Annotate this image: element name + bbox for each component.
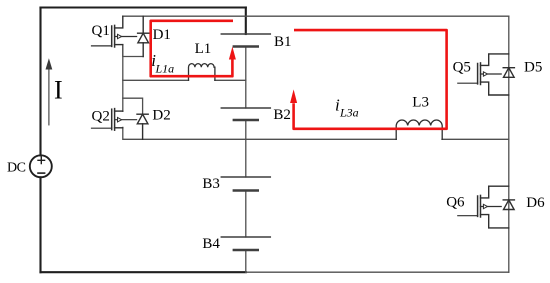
wire: B1 top feed (dark corner down) xyxy=(245,8,247,35)
battery B1 xyxy=(221,34,270,47)
svg-text:B2: B2 xyxy=(273,107,291,123)
battery B4 xyxy=(221,237,270,250)
wire: Q1 source dogleg to D1 anode xyxy=(123,45,143,57)
diode D1 xyxy=(138,16,149,56)
current arrow I head xyxy=(46,58,53,69)
left bridge midpoint vertical xyxy=(122,45,124,112)
svg-text:D5: D5 xyxy=(524,60,542,76)
DC source circle xyxy=(30,155,52,177)
inductor L3 xyxy=(396,120,442,139)
svg-text:D2: D2 xyxy=(152,108,170,124)
transistor Q1 xyxy=(92,16,137,47)
red arrow head left loop xyxy=(229,47,236,60)
wire: right rail vertical xyxy=(508,16,510,272)
transistor Q6 xyxy=(458,186,509,228)
transistor Q5 xyxy=(458,54,509,95)
wire: outer left border xyxy=(39,8,41,273)
wire: outer top (dark) xyxy=(41,6,246,8)
inductor L1 xyxy=(189,64,215,81)
wire: L3 right wire to right rail xyxy=(442,138,509,140)
svg-text:Q1: Q1 xyxy=(92,23,110,39)
diode D5 xyxy=(503,68,514,78)
red loop left (i_L1a) xyxy=(151,21,233,76)
wire: bottom right gray part xyxy=(246,271,509,273)
wire: L1 left wire xyxy=(123,79,189,81)
svg-text:L1: L1 xyxy=(195,41,212,57)
wire: top rail y16.2 from Q1 drain to right rail xyxy=(123,15,509,17)
svg-text:L3: L3 xyxy=(412,95,429,111)
DC source minus xyxy=(38,172,45,174)
diode D2 xyxy=(137,114,148,139)
svg-text:B4: B4 xyxy=(202,236,220,252)
red loop right (i_L3a) xyxy=(294,30,447,129)
svg-text:Q5: Q5 xyxy=(453,59,471,75)
wire: Q2 source to B2/B3 junction and on to L3 xyxy=(123,127,396,139)
battery column verticals xyxy=(245,47,247,273)
DC source plus xyxy=(38,157,45,164)
svg-text:L1a: L1a xyxy=(155,62,175,76)
current arrow I line xyxy=(48,68,50,125)
transistor Q2 xyxy=(92,109,137,131)
svg-text:D6: D6 xyxy=(526,195,545,211)
svg-text:B1: B1 xyxy=(274,34,292,50)
svg-text:I: I xyxy=(54,75,63,104)
svg-text:DC: DC xyxy=(7,161,26,176)
wire: outer bottom (dark left part) xyxy=(41,271,246,273)
wire: L1 right wire to B column xyxy=(215,79,246,81)
battery B3 xyxy=(221,177,270,191)
svg-text:B3: B3 xyxy=(202,176,220,192)
diode D6 xyxy=(503,200,514,210)
svg-text:L3a: L3a xyxy=(339,106,359,120)
svg-text:Q6: Q6 xyxy=(446,194,465,210)
red arrow head right loop xyxy=(290,89,297,103)
svg-text:D1: D1 xyxy=(153,27,171,43)
svg-text:Q2: Q2 xyxy=(92,109,110,125)
wire: D2 cathode branch xyxy=(123,98,143,114)
battery B2 xyxy=(221,108,270,120)
